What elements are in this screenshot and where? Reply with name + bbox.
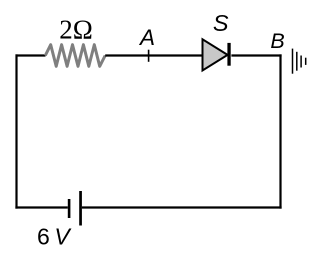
wire: left vertical segment — [15, 54, 17, 208]
svg-text:B: B — [270, 29, 284, 53]
wire: diode to node B corner — [231, 54, 281, 56]
svg-text:2Ω: 2Ω — [59, 15, 93, 45]
wire: node A to diode — [149, 54, 203, 56]
svg-text:6: 6 — [37, 224, 50, 250]
wire: right vertical segment — [279, 54, 281, 208]
wire: resistor to node A — [105, 54, 148, 56]
wire: top-left horizontal segment — [16, 54, 46, 56]
node A tick — [148, 50, 150, 62]
resistor R1 — [45, 45, 105, 67]
svg-text:S: S — [213, 10, 229, 36]
svg-text:V: V — [54, 224, 72, 250]
diode S cathode bar — [227, 43, 230, 66]
diode S (triangle) — [203, 39, 228, 70]
battery B1 short plate (negative) — [68, 199, 71, 218]
svg-text:A: A — [138, 25, 155, 50]
wire: bottom-left to battery — [15, 206, 67, 208]
ground symbol (hatched, rotated right) — [293, 49, 306, 74]
battery B1 long plate (positive) — [79, 191, 82, 226]
wire: battery to bottom-right — [82, 206, 282, 208]
